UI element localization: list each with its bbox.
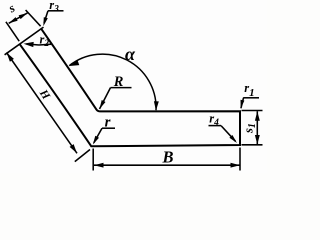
r1 leader arrow at top right corner <box>241 100 245 109</box>
alpha angle arc <box>69 54 156 110</box>
B extension line right, below bar right end <box>239 148 241 171</box>
r4 leader arrow at bottom right corner <box>229 135 237 143</box>
top end cut edge, extended beyond T1 as H extension line <box>5 27 44 55</box>
svg-text:B: B <box>161 147 173 166</box>
H dimension line <box>7 53 78 154</box>
s dim arrow upper-right <box>19 13 28 19</box>
B dimension line <box>94 164 240 166</box>
alpha arc arrow right, points down to horizontal top edge <box>154 101 159 111</box>
H dim arrow top <box>7 53 14 62</box>
svg-text:α: α <box>125 44 136 64</box>
label s1 <box>242 123 258 134</box>
s dim arrow lower-left <box>9 17 18 23</box>
r3 leader arrow at T2 <box>43 17 48 26</box>
r underline <box>102 127 115 129</box>
alpha arc arrow left, points to inclined inner edge <box>70 61 80 67</box>
r1 underline <box>243 97 259 99</box>
s extension line from T2 <box>26 10 41 26</box>
s dimension line <box>9 13 28 23</box>
R underline <box>111 87 132 89</box>
B dim arrow left <box>94 163 104 168</box>
svg-text:R: R <box>113 74 124 90</box>
r3 underline <box>48 10 64 12</box>
r2 underline <box>39 43 51 46</box>
B extension line left, below outer joint corner <box>92 149 94 171</box>
r leader line <box>94 128 102 143</box>
r leader arrow at outer corner <box>93 136 99 145</box>
r4 underline <box>209 125 222 127</box>
B dim arrow right <box>231 163 241 168</box>
s1 extension line top <box>242 110 263 112</box>
r2 leader line with arrow pointing left at T1 <box>27 44 40 45</box>
s1 dim arrow down <box>255 135 260 145</box>
R leader arrow at inner corner <box>100 100 106 109</box>
H dim arrow bottom <box>70 144 77 153</box>
R leader line <box>100 88 111 109</box>
r4 leader line <box>221 126 236 142</box>
r3 leader line <box>44 11 48 23</box>
s1 dimension line <box>256 111 258 144</box>
s1 dim arrow up <box>255 111 260 121</box>
svg-text:r: r <box>105 114 111 130</box>
s1 extension line bottom <box>242 144 263 146</box>
r1 leader line <box>241 98 244 109</box>
H extension line at bottom, through outer joint corner <box>75 150 90 162</box>
s extension line from T1 <box>6 22 19 41</box>
profile outline: bent angle cross-section <box>20 28 240 146</box>
